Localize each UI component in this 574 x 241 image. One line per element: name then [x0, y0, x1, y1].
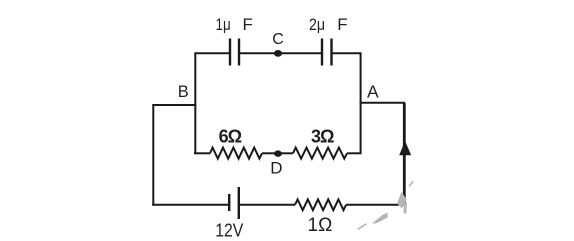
svg-text:6Ω: 6Ω [219, 127, 242, 147]
node D junction dot [274, 150, 282, 156]
svg-text:1Ω: 1Ω [308, 215, 333, 236]
node C junction dot [274, 50, 282, 57]
battery V1 positive plate (long) [238, 187, 240, 219]
wire bottom rail right segment [346, 204, 406, 206]
wire outer left vertical [152, 104, 154, 206]
resistor R2 3ohm zigzag [293, 148, 347, 159]
wire bottom rail middle segment [240, 204, 295, 206]
wire middle rail left segment [194, 152, 210, 154]
svg-text:12V: 12V [215, 219, 244, 240]
wire middle rail right segment [347, 152, 362, 154]
capacitor C1 1uF plates [230, 39, 239, 66]
wire top rail left segment (B corner to C1) [195, 53, 229, 154]
wire outer right vertical [403, 103, 406, 205]
current direction arrowhead on right branch [399, 141, 411, 155]
svg-text:C: C [272, 31, 284, 48]
watermark dash above corner [409, 181, 414, 187]
svg-text:1μ: 1μ [216, 15, 231, 34]
svg-text:3Ω: 3Ω [311, 126, 334, 146]
svg-text:F: F [337, 15, 347, 34]
watermark flag mark [373, 213, 388, 224]
capacitor C2 2uF plates [322, 39, 332, 66]
wire middle rail segment node D to R2 [281, 152, 293, 154]
wire top rail right segment (C2 to A corner) [333, 53, 361, 154]
battery V1 negative plate (short) [228, 194, 230, 211]
wire middle rail segment R1 to node D [262, 152, 275, 154]
resistor R1 6ohm zigzag [210, 148, 262, 159]
resistor R3 1ohm zigzag [295, 199, 346, 210]
svg-text:D: D [270, 158, 282, 177]
wire top rail middle segment (C1 to C2 through node C) [240, 52, 321, 54]
svg-text:2μ: 2μ [309, 15, 325, 34]
wire node A stub [360, 102, 406, 104]
wire node B stub [152, 104, 196, 106]
svg-text:A: A [367, 82, 379, 102]
svg-text:B: B [178, 83, 189, 101]
watermark blob near bottom-right corner [397, 192, 407, 209]
svg-text:F: F [243, 15, 253, 34]
wire bottom rail left segment [152, 204, 228, 206]
watermark small dash [357, 223, 367, 230]
